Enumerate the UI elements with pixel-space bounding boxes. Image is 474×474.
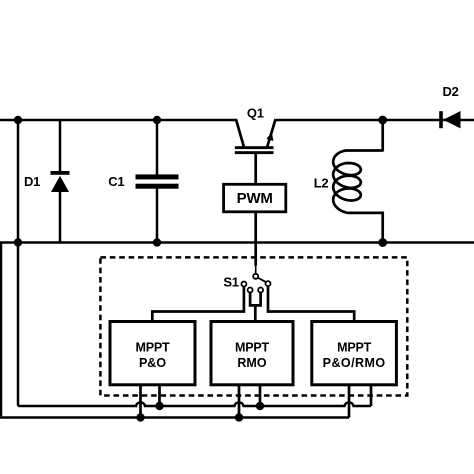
block MPPT RMO bbox=[211, 322, 293, 385]
node junction box1 left stub bbox=[136, 413, 144, 421]
wire: inner feedback sense line (vertical + horizontal with hops) bbox=[18, 243, 371, 407]
wire: outer feedback sense line bbox=[0, 243, 2, 416]
switch S1 contact c bbox=[258, 288, 263, 293]
wire: bottom bus bbox=[0, 241, 474, 244]
capacitor C1 plates bbox=[136, 174, 179, 179]
wire: left input branch vertical bbox=[17, 120, 20, 243]
svg-text:MPPT: MPPT bbox=[136, 340, 170, 354]
svg-text:L2: L2 bbox=[314, 176, 329, 191]
wire: box1 right bottom stub bbox=[158, 385, 161, 406]
node junction box1 right stub bbox=[155, 402, 163, 410]
diode D1 wires bbox=[59, 120, 62, 173]
node junction box2 left stub bbox=[235, 413, 243, 421]
diode D1 cathode bar bbox=[51, 171, 70, 175]
node junction C1 top bbox=[153, 116, 161, 124]
capacitor C1 wires bbox=[156, 120, 159, 176]
svg-text:Q1: Q1 bbox=[247, 106, 264, 121]
switch S1 contact d bbox=[266, 281, 271, 286]
diode D1 triangle bbox=[51, 176, 69, 192]
wire: box2 right bottom stub bbox=[259, 385, 262, 406]
node junction C1 bottom bbox=[153, 238, 161, 246]
block MPPT P&O bbox=[110, 322, 195, 385]
wire: box3 right bottom stub bbox=[370, 385, 373, 406]
wire: box3 left bottom stub bbox=[348, 385, 351, 418]
svg-text:S1: S1 bbox=[223, 275, 238, 290]
transistor Q1 body bar bbox=[235, 146, 274, 149]
block MPPT P&O/RMO bbox=[312, 322, 397, 385]
node junction L2 bottom bbox=[378, 238, 387, 247]
inductor L2 coil bbox=[333, 151, 383, 213]
node junction top-left bbox=[14, 116, 22, 124]
transistor Q1 emitter arrow bbox=[266, 132, 273, 141]
wire: S1 left route to MPPT P&O bbox=[152, 287, 244, 322]
wire: top bus right segment bbox=[276, 119, 474, 122]
wire: Q1 gate to PWM bbox=[254, 154, 257, 185]
transistor Q1 collector slant bbox=[236, 119, 244, 147]
switch S1 contact a bbox=[241, 282, 246, 287]
diode D2 cathode bar bbox=[439, 111, 443, 128]
wire: S1 middle route to MPPT RMO bbox=[250, 293, 261, 322]
switch S1 wiper bbox=[258, 278, 267, 283]
diode D2 triangle bbox=[443, 111, 460, 128]
node junction box2 right stub bbox=[256, 402, 264, 410]
wire: box2 left bottom stub bbox=[238, 385, 241, 418]
PWM box bbox=[224, 184, 286, 212]
switch S1 contact b bbox=[248, 288, 253, 293]
svg-text:RMO: RMO bbox=[237, 356, 266, 370]
svg-text:C1: C1 bbox=[108, 174, 124, 189]
wire: box1 left bottom stub bbox=[139, 385, 142, 418]
node junction bottom-left bbox=[14, 238, 22, 246]
dashed controller box bbox=[100, 257, 407, 395]
svg-text:P&O/RMO: P&O/RMO bbox=[323, 356, 386, 370]
svg-text:MPPT: MPPT bbox=[337, 340, 371, 354]
svg-text:D2: D2 bbox=[442, 84, 458, 99]
wire: PWM to switch S1 bbox=[254, 212, 257, 266]
svg-text:PWM: PWM bbox=[237, 190, 273, 207]
transistor Q1 gate bar bbox=[235, 151, 274, 154]
svg-text:P&O: P&O bbox=[139, 356, 166, 370]
svg-text:MPPT: MPPT bbox=[235, 340, 269, 354]
wire: S1 right route to MPPT P&O/RMO bbox=[268, 286, 354, 322]
inductor L2 wires bbox=[381, 120, 384, 152]
transistor Q1 emitter slant bbox=[267, 119, 275, 147]
wire: top bus left segment bbox=[0, 119, 236, 122]
node junction L2 top bbox=[378, 116, 387, 125]
switch S1 pivot contact bbox=[253, 274, 258, 279]
svg-text:D1: D1 bbox=[24, 174, 40, 189]
